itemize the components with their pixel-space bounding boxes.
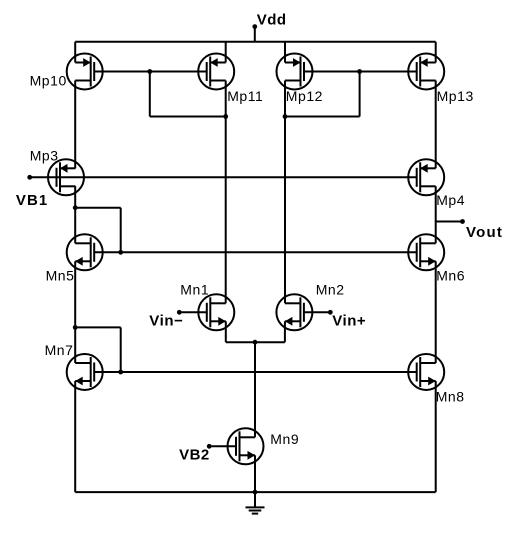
svg-text:Mn6: Mn6 [436, 267, 465, 283]
wire Mn5 source to Mn7 drain [74, 261, 76, 363]
svg-text:Mp3: Mp3 [30, 147, 59, 163]
svg-text:Mp4: Mp4 [436, 192, 465, 208]
wire Vdd rail [75, 41, 436, 43]
svg-text:Mn9: Mn9 [270, 431, 299, 447]
wire Mp13 source up [435, 42, 437, 63]
svg-text:Mn8: Mn8 [436, 389, 465, 405]
junction Mp12/Mp13 gate node [357, 69, 362, 74]
wire Mn5 source branch horizontal [75, 326, 121, 328]
wire tail join [226, 341, 285, 343]
junction Mp12 drain diode connection [283, 114, 288, 119]
wire right mirror feedback vertical [359, 72, 361, 117]
wire VB1 to Mp3/Mp4 gates [30, 176, 417, 178]
wire Mp10 drain to Mp3 source [74, 81, 76, 169]
svg-text:Vdd: Vdd [257, 12, 287, 29]
wire Mp12 drain to Mn2 drain [284, 81, 286, 304]
wire Mn5-Mn6 gates [94, 251, 417, 253]
svg-text:VB1: VB1 [16, 192, 48, 209]
svg-text:Mn7: Mn7 [45, 342, 74, 358]
transistor Mn1 [180, 282, 234, 331]
wire Mn7-Mn8 gates [94, 371, 417, 373]
wire Mp12 source up [284, 42, 286, 63]
transistor Mn9 [228, 428, 300, 464]
junction ground node [253, 490, 258, 495]
transistor Mn2 [276, 282, 344, 331]
wire Mn2 gate to Vin+ [304, 311, 330, 313]
ground [246, 492, 265, 513]
transistor Mn7 [45, 342, 103, 390]
node Vdd terminal dot [252, 24, 257, 29]
svg-text:Vin−: Vin− [149, 312, 183, 329]
wire right mirror feedback horizontal [285, 116, 360, 118]
transistor Mp10 [30, 54, 103, 90]
svg-text:Mp13: Mp13 [437, 88, 474, 104]
transistor Mp12 [277, 54, 324, 104]
svg-text:Mp12: Mp12 [286, 88, 323, 104]
junction Mp10/Mp11 gate node [147, 69, 152, 74]
node VB1 terminal dot [27, 175, 32, 180]
node Vin+ terminal dot [328, 310, 333, 315]
junction Mp11 drain diode connection [223, 114, 228, 119]
wire Mp12-Mp13 gates [304, 71, 417, 73]
wire Mp3 drain to Mn5 drain [74, 186, 76, 243]
transistor Mp13 [408, 54, 474, 104]
svg-text:Vin+: Vin+ [332, 312, 366, 329]
transistor Mn5 [46, 234, 103, 283]
junction Mn5 source node [73, 325, 78, 330]
junction Mp3 drain node [73, 205, 78, 210]
transistor Mn6 [408, 234, 465, 283]
wire tail to Mn9 drain [254, 342, 256, 437]
junction Mn7/Mn8 gate node [118, 370, 123, 375]
wire Mn9 source to ground rail [254, 455, 256, 492]
node Vout terminal dot [460, 219, 465, 224]
wire Mn7 source to ground rail [74, 381, 76, 492]
wire Mp11 source up [225, 42, 227, 63]
wire Mn2 source down [284, 321, 286, 342]
transistor Mp4 [408, 159, 465, 208]
wire left mirror feedback vertical [149, 72, 151, 117]
wire Mp11 drain to Mn1 drain [225, 81, 227, 304]
wire Mn8 source to ground rail [435, 381, 437, 492]
wire Vout stub [436, 221, 463, 223]
wire Mp3 drain branch horizontal [75, 207, 121, 209]
svg-text:Mn5: Mn5 [46, 268, 75, 284]
junction tail node [253, 340, 258, 345]
svg-text:Mp11: Mp11 [227, 88, 263, 104]
wire Mp3 drain branch vertical [120, 208, 122, 253]
wire Mp13 drain to Mp4 source [435, 81, 437, 169]
wire Mp10 source up [74, 42, 76, 63]
transistor Mp11 [198, 54, 263, 104]
wire Vdd stub [254, 27, 256, 42]
wire VB2 to Mn9 gate [209, 445, 236, 447]
node VB2 terminal dot [207, 444, 212, 449]
wire Mp4 drain to Mn6 drain [435, 186, 437, 243]
node Vin- terminal dot [177, 310, 182, 315]
transistor Mp3 [30, 147, 84, 195]
wire Mp10-Mp11 gates [94, 71, 207, 73]
svg-text:Mn1: Mn1 [180, 282, 209, 298]
svg-text:Mn2: Mn2 [316, 282, 345, 298]
wire Mn1 source down [225, 321, 227, 342]
wire Mn5 source branch vertical [120, 327, 122, 372]
transistor Mn8 [408, 354, 464, 405]
wire ground rail [75, 491, 436, 493]
wire Vin- to Mn1 gate [179, 311, 207, 313]
svg-text:VB2: VB2 [179, 447, 210, 464]
svg-text:Vout: Vout [466, 224, 503, 241]
junction Mn5/Mn6 gate node [118, 250, 123, 255]
wire Mn6 source to Mn8 drain [435, 261, 437, 363]
wire left mirror feedback horizontal [150, 116, 226, 118]
svg-text:Mp10: Mp10 [30, 72, 67, 88]
